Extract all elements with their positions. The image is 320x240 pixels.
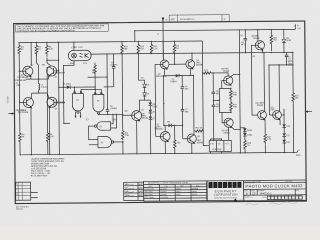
svg-text:PHOTO MOD CLOCK M402: PHOTO MOD CLOCK M402 [245, 183, 303, 189]
wire: R2 column down [36, 54, 38, 80]
wire: R8 node line [88, 77, 108, 94]
wire: collector line lower [32, 92, 47, 94]
capacitor C8 [243, 30, 247, 53]
diode D14 [243, 133, 247, 136]
resistor R16 [137, 42, 140, 55]
wire: Q5 collector to right column [231, 74, 240, 129]
wire: Q8 leads [182, 76, 194, 154]
wire: R21 lower [292, 103, 294, 152]
wire: right bus column x59 [57, 42, 60, 154]
transistor Q10 [258, 111, 267, 120]
wire: FF top link [213, 73, 228, 76]
notice box [16, 24, 109, 33]
wire: FF cross links [213, 80, 231, 122]
wire: right link [269, 64, 293, 66]
transistor Q5 [224, 76, 233, 85]
capacitor C4 [180, 76, 184, 110]
svg-text:6534B: 6534B [156, 129, 163, 131]
svg-text:DEC2894: DEC2894 [145, 191, 153, 193]
wire: emitter line [26, 76, 49, 80]
resistor R10 [121, 42, 124, 55]
svg-text:DEC6534B: DEC6534B [18, 112, 29, 114]
svg-text:6534B: 6534B [196, 65, 203, 67]
svg-text:CORPORATION: CORPORATION [214, 193, 238, 197]
extra value labels [15, 33, 276, 146]
svg-text:1N645: 1N645 [192, 191, 197, 193]
wire: +10V top rail A [18, 41, 202, 43]
svg-text:6.3V: 6.3V [78, 47, 83, 49]
svg-text:D1 D664: D1 D664 [63, 84, 72, 86]
svg-text:.01MFD: .01MFD [110, 65, 118, 67]
resistor R7 [173, 41, 176, 54]
wire: lamp feed [73, 42, 75, 50]
capacitor C7 [181, 110, 185, 139]
inductor L1 [38, 79, 39, 93]
svg-text:DEC6534B: DEC6534B [16, 80, 27, 82]
wire: pot to ground [210, 127, 228, 153]
resistor R3 [46, 42, 49, 56]
wire: Q10 base column [251, 53, 257, 115]
wire: E1b output [114, 141, 123, 143]
svg-text:CS: CS [252, 191, 256, 195]
wire: left bus column [18, 43, 20, 46]
svg-text:DEC6534B: DEC6534B [156, 76, 167, 78]
wire: E1a inputs [111, 114, 117, 128]
outside border bottom-right pencil note [246, 204, 259, 205]
svg-text:2N2894: 2N2894 [160, 191, 166, 193]
diode D6 [149, 110, 153, 113]
capacitor C9 [105, 54, 109, 115]
transistor Q3 [23, 97, 33, 107]
diode D13 column [240, 127, 245, 130]
diode D4 [143, 93, 147, 96]
gate E1b (horizontal NAND output right) [98, 136, 112, 147]
capacitor C2 [285, 52, 293, 65]
svg-text:D664: D664 [247, 135, 253, 137]
svg-text:6534B: 6534B [197, 142, 204, 144]
diode D11 [282, 133, 286, 136]
gate D1a (vertical NAND) [72, 93, 83, 111]
diode D7 [149, 116, 153, 119]
svg-text:6534B: 6534B [224, 132, 231, 134]
diode D5 [149, 100, 151, 102]
svg-text:L2 B2: L2 B2 [71, 47, 77, 49]
node: ground rail joints [20, 154, 21, 155]
resistor R22 [264, 133, 267, 144]
wire: mid rail [91, 52, 292, 54]
transistor Q1 [23, 66, 33, 76]
capacitor C6 [211, 101, 215, 141]
gate D1b (vertical NAND) [93, 94, 104, 112]
diode D2 [176, 74, 179, 78]
logo digital squares [209, 182, 242, 188]
resistor R2 [35, 42, 38, 55]
wire: rail A end drop [202, 41, 209, 146]
wire: lamp return [63, 61, 74, 124]
wire: E1b inputs [89, 139, 98, 144]
svg-text:d: d [209, 183, 212, 188]
wire: mid rail right end drop [292, 52, 294, 64]
transistor Q3m [186, 60, 195, 69]
diode D10 [282, 124, 286, 127]
resistor R20 [270, 30, 273, 52]
svg-text:6534B: 6534B [253, 38, 260, 40]
svg-text:6534B: 6534B [257, 105, 264, 107]
svg-text:D662: D662 [176, 191, 180, 193]
svg-text:COPYRIGHT 1968 BY DIGITAL EQUI: COPYRIGHT 1968 BY DIGITAL EQUIPMENT CORP… [17, 29, 76, 33]
svg-text:6534B: 6534B [142, 118, 149, 120]
resistor R12 [195, 130, 204, 132]
diode D9 [283, 30, 285, 40]
resistor R8 [94, 63, 97, 77]
wire: left bus lower [18, 55, 21, 132]
svg-text:DEC6534B: DEC6534B [54, 72, 65, 74]
svg-text:CLOCK: CLOCK [7, 96, 9, 104]
svg-text:6534B: 6534B [223, 71, 230, 73]
resistor R11 [121, 130, 124, 140]
gate E1a (horizontal NAND output left) [97, 122, 111, 131]
transistor Q2 [47, 66, 57, 76]
diode D12 [282, 140, 286, 143]
svg-text:D662: D662 [153, 106, 159, 108]
diode D1 [59, 86, 67, 88]
svg-text:E1 IS DEC7400N: E1 IS DEC7400N [31, 175, 48, 177]
svg-text:2N3009: 2N3009 [160, 194, 166, 196]
wire: E1a output to left [89, 126, 95, 139]
size code number row [250, 189, 295, 195]
diode D8 [164, 124, 168, 126]
terminal: top border input arrow D [162, 17, 164, 22]
svg-text:.01M: .01M [16, 85, 21, 87]
lamp-photocell housing [68, 50, 91, 61]
svg-text:1.5K: 1.5K [49, 136, 54, 138]
svg-text:TRANSISTOR & DIODE CONVERSION: TRANSISTOR & DIODE CONVERSION CHART [148, 181, 190, 184]
border frame [14, 21, 307, 204]
wire: Q7 leads [156, 125, 166, 153]
wire: FF right column [239, 30, 240, 153]
lamp L2 [72, 53, 77, 58]
terminal: left border clock input arrow [8, 113, 14, 115]
photocell PC1 [85, 53, 89, 58]
svg-text:i: i [224, 183, 225, 188]
resistor R24 [173, 125, 176, 153]
wire: x139 lower segment [139, 99, 145, 101]
svg-text:REV.: REV. [296, 190, 300, 192]
svg-text:B: B [246, 192, 248, 196]
resistor R18 [229, 88, 232, 100]
svg-text:1N3606: 1N3606 [192, 188, 198, 190]
svg-text:DEC: DEC [270, 109, 275, 111]
svg-text:DEC3009: DEC3009 [145, 194, 153, 196]
wire: x284 diode column top [281, 109, 284, 124]
svg-text:1.5K: 1.5K [125, 135, 130, 137]
wire: x139 column to diode chain [138, 54, 144, 81]
svg-text:1.5K: 1.5K [267, 139, 272, 141]
svg-text:+5V: +5V [297, 28, 301, 30]
svg-text:2.2K: 2.2K [153, 48, 158, 50]
svg-text:DEC6534B: DEC6534B [17, 77, 28, 79]
svg-text:2N3639: 2N3639 [160, 189, 166, 191]
resistor R21 [292, 65, 295, 103]
wire: Q3 Q4 emitters to ground columns [31, 107, 50, 155]
marker: revision flag triangle [233, 198, 237, 201]
svg-text:DEC6534B: DEC6534B [16, 110, 27, 112]
wire: Q3m collector to mid rail [191, 53, 193, 60]
svg-text:1N270: 1N270 [192, 194, 197, 196]
svg-text:B CS M402-0-1: B CS M402-0-1 [180, 19, 195, 21]
svg-text:SIZE: SIZE [170, 19, 175, 21]
terminal: gate D1a output arrows [75, 112, 80, 117]
capacitor C5 [211, 73, 215, 101]
svg-text:g: g [219, 183, 222, 188]
resistor R19 [230, 100, 233, 112]
capacitor C3 [103, 54, 115, 87]
wire: Q11 leads [269, 65, 280, 125]
transistor Q9 [255, 41, 264, 50]
transistor Q4 [47, 97, 57, 107]
node: rail B corner junction [134, 30, 135, 31]
potentiometer box R13 [209, 140, 231, 151]
svg-text:D664: D664 [247, 130, 253, 132]
svg-text:2.2UH: 2.2UH [41, 87, 47, 89]
svg-text:l: l [239, 183, 240, 188]
wire: x123 column [121, 54, 124, 130]
svg-text:DRB 102: DRB 102 [16, 209, 23, 211]
wire: +5V rail B [135, 29, 296, 41]
wire: Q6 leads [122, 100, 139, 154]
wire: ground bottom rail [21, 151, 298, 155]
transistor Q8 [187, 134, 196, 143]
transistor Q6 [132, 111, 142, 121]
wire: photocell to mid rail [90, 53, 91, 55]
wire: Q10 leads [264, 53, 265, 134]
svg-text:2.2K: 2.2K [49, 49, 54, 51]
wire: Q2m connections [155, 41, 187, 136]
svg-text:DEC7400N: DEC7400N [145, 197, 155, 199]
wire: center bus lower [162, 76, 164, 126]
svg-text:DEC6534B: DEC6534B [145, 189, 155, 191]
wire: R3 to Q2 collector [47, 57, 59, 66]
svg-text:7.5K: 7.5K [233, 95, 238, 97]
svg-text:D664A: D664A [170, 80, 177, 83]
wire: vertical bus from top arrow [162, 22, 164, 60]
transistor Q6b [224, 118, 233, 127]
svg-text:D664: D664 [176, 188, 180, 190]
terminal: right border arrow [307, 111, 311, 113]
top number strip [169, 15, 229, 22]
svg-text:R13 GND: R13 GND [212, 149, 222, 151]
diode D3 [143, 80, 145, 84]
resistor R23 [244, 140, 247, 153]
svg-text:MFD: MFD [241, 44, 246, 46]
transistor Q2m [160, 60, 169, 69]
resistor R4 [19, 131, 22, 155]
transistor Q11 [273, 111, 282, 120]
wire: Q1 collector column [30, 43, 32, 66]
wire: gate D1b output to junction [99, 113, 124, 116]
resistor R17 [203, 72, 214, 74]
resistor R9 [46, 67, 49, 155]
terminal: +5V arrow top right B [294, 26, 296, 30]
svg-text:M402-0-1: M402-0-1 [260, 191, 272, 195]
wire: Q9 leads [251, 30, 262, 53]
wire: emitter line y75.8 [165, 69, 194, 76]
resistor R14 [150, 41, 153, 54]
svg-text:.01MFD: .01MFD [110, 108, 118, 110]
svg-text:GND: GND [296, 155, 301, 157]
transistor Q7 [160, 131, 170, 141]
svg-text:SN7400N: SN7400N [160, 197, 169, 199]
svg-text:D662: D662 [286, 40, 292, 42]
svg-text:DIST.: DIST. [262, 197, 266, 199]
svg-text:D670: D670 [176, 194, 180, 196]
resistor R1 [18, 45, 21, 54]
svg-text:R12 1K: R12 1K [196, 127, 204, 129]
svg-text:7.5K: 7.5K [233, 107, 238, 109]
svg-text:DEC6534B: DEC6534B [55, 102, 66, 104]
svg-text:i: i [215, 183, 216, 188]
